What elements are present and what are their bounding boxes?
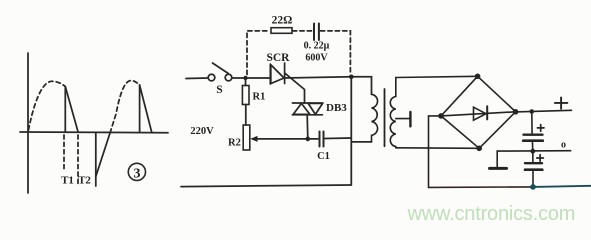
bottom rail of 220V loop — [181, 185, 351, 187]
bridge internal diagonal — [441, 112, 516, 116]
waveform pulse2 falling edge — [140, 85, 152, 132]
wire: secondary top to bridge top corner — [396, 76, 478, 77]
svg-text:C1: C1 — [317, 151, 330, 162]
wiper arrow line of R2 — [253, 138, 308, 140]
waveform horizontal axis — [20, 131, 168, 134]
waveform negative trigger vertical — [95, 133, 97, 186]
snubber dashed left riser — [247, 31, 270, 75]
potentiometer R2 body — [243, 125, 250, 150]
svg-text:220V: 220V — [190, 126, 214, 137]
wire: switch to R1 junction and SCR anode — [232, 77, 270, 79]
ground bar — [490, 167, 507, 170]
wire: SCR cathode to snubber node — [285, 77, 352, 78]
bridge right corner dot — [513, 109, 519, 115]
bottom DC minus rail left part — [429, 186, 534, 189]
wire: R1 to R2 — [245, 105, 247, 126]
wire: bridge right corner to plus output — [516, 110, 572, 112]
snubber dashed middle link — [293, 30, 313, 32]
wire: diac to C1 node — [306, 115, 309, 139]
wire: SCR node to transformer primary top — [351, 77, 371, 95]
right vertical bus from SCR node to bottom rail — [350, 77, 352, 185]
secondary center tap lead — [396, 118, 410, 120]
SCR U1 triangle — [271, 65, 284, 84]
junction dot at switch/R1 node — [243, 76, 247, 80]
wire: midpoint to capacitor C3 — [532, 151, 534, 162]
transformer T secondary winding — [390, 78, 396, 148]
svg-text:600V: 600V — [305, 53, 328, 64]
wire: R1 drop — [245, 78, 247, 86]
diac DB3 bottom bar — [292, 114, 322, 116]
snubber capacitor 0.22u left plate — [313, 24, 315, 41]
capacitor C2 bottom plate — [523, 139, 543, 142]
dashed marker below axis at T2 — [77, 135, 79, 184]
waveform hump2 dashed rise — [110, 81, 139, 133]
transformer T primary winding — [372, 94, 378, 142]
wire: C3 to bottom rail — [532, 170, 534, 187]
svg-text:T2: T2 — [78, 175, 91, 187]
circled figure number 3 — [128, 163, 145, 181]
junction dot at diac/C1 node — [306, 137, 311, 142]
capacitor C3 top plate — [525, 162, 542, 164]
svg-text:SCR: SCR — [266, 52, 290, 64]
switch S contact circle right — [225, 74, 232, 81]
wire: secondary bottom to bridge bottom corner — [396, 147, 479, 150]
bridge top corner dot — [475, 74, 481, 80]
transformer core — [384, 89, 386, 146]
capacitor C1 right plate — [323, 132, 325, 147]
bridge diode D1 cathode bar — [486, 106, 488, 119]
secondary center tap terminal bar — [409, 112, 411, 126]
svg-text:3: 3 — [134, 166, 141, 181]
svg-text:o: o — [561, 140, 566, 151]
waveform pulse2 trigger vertical — [139, 85, 141, 132]
wiper arrowhead of R2 — [250, 136, 257, 142]
resistor R1 body — [242, 86, 249, 105]
svg-text:DB3: DB3 — [326, 102, 347, 114]
SCR U1 gate lead — [285, 74, 304, 104]
switch S contact circle left — [208, 74, 215, 81]
junction dot at bottom rail teal — [530, 184, 536, 190]
resistor 22 ohm body — [271, 28, 292, 34]
capacitor C2 top plate — [524, 133, 543, 135]
svg-text:S: S — [216, 84, 222, 96]
bottom DC minus rail right part teal — [533, 186, 591, 187]
plus polarity mark at C3 — [537, 155, 544, 162]
svg-text:www.cntronics.com: www.cntronics.com — [407, 203, 576, 225]
bridge left corner dot — [438, 113, 444, 119]
svg-text:0. 22μ: 0. 22μ — [304, 41, 330, 52]
svg-text:R1: R1 — [253, 92, 266, 103]
waveform vertical axis — [27, 53, 29, 193]
zero volt line to right — [497, 150, 571, 152]
waveform negative rising edge — [96, 133, 110, 177]
plus output symbol top right — [555, 97, 568, 108]
wire: plus node down to capacitor C2 — [531, 112, 533, 135]
wire: AC input to switch — [186, 77, 208, 80]
bridge bottom corner dot — [476, 146, 482, 152]
bridge diode D1 triangle — [474, 107, 487, 120]
snubber capacitor 0.22u right plate — [318, 24, 320, 41]
plus polarity mark at C2 — [537, 125, 544, 132]
wire: coil bottom link — [351, 141, 371, 143]
svg-text:22Ω: 22Ω — [272, 15, 293, 27]
waveform pulse1 trigger vertical T1 — [64, 87, 66, 132]
waveform pulse1 falling edge — [65, 87, 78, 132]
waveform hump1 dashed rise — [29, 81, 66, 130]
diac DB3 top bar — [292, 102, 322, 104]
wire: bridge left corner to DC minus drop — [429, 116, 442, 187]
wire: C1 node to C1 left plate — [308, 138, 318, 140]
dashed marker below axis at T1 — [63, 135, 65, 171]
switch S arm — [213, 63, 229, 73]
capacitor C1 left plate — [319, 132, 321, 147]
bridge rectifier diamond — [441, 76, 516, 148]
svg-text:T1: T1 — [61, 175, 74, 187]
ground riser — [496, 151, 498, 167]
diac DB3 down triangle — [308, 103, 322, 114]
snubber dashed right link and riser — [321, 31, 351, 74]
junction dot at plus/C2 node — [530, 109, 535, 114]
diac DB3 up triangle — [293, 103, 310, 114]
SCR U1 anode bar — [269, 64, 271, 84]
wire: C1 right plate to right vertical — [325, 137, 351, 140]
capacitor C3 bottom plate — [525, 168, 542, 171]
junction dot at snubber right node — [349, 75, 354, 80]
SCR U1 cathode bar — [284, 63, 286, 84]
junction dot at midpoint node — [530, 149, 535, 154]
wire: C2 to midpoint node — [531, 141, 533, 151]
svg-text:R2: R2 — [228, 138, 241, 149]
